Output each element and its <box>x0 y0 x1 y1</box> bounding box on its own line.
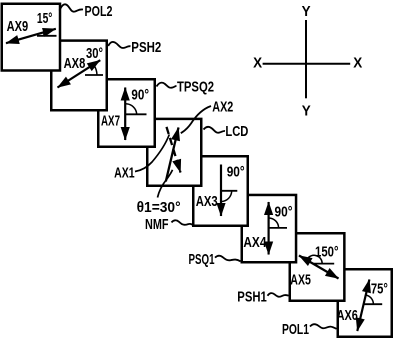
arrow AX8 30deg <box>58 60 101 87</box>
svg-text:75°: 75° <box>371 281 388 298</box>
X axis line <box>263 63 351 65</box>
svg-text:AX2: AX2 <box>212 98 233 115</box>
square POL2 (S1) <box>2 4 60 71</box>
svg-text:90°: 90° <box>275 203 293 220</box>
solid director AX1 <box>166 128 179 182</box>
leader TPSQ2 <box>157 83 177 88</box>
square PSH1 (S7) <box>290 233 345 301</box>
svg-text:POL2: POL2 <box>85 3 113 20</box>
svg-text:AX5: AX5 <box>290 272 311 289</box>
square PSH2 (S2) <box>51 41 107 111</box>
arrow AX3 90deg down <box>220 165 222 217</box>
svg-text:PSH1: PSH1 <box>237 288 266 305</box>
svg-text:θ1=30°: θ1=30° <box>137 199 181 216</box>
arc 90deg <box>221 191 232 202</box>
svg-text:90°: 90° <box>227 163 245 180</box>
svg-text:LCD: LCD <box>225 123 248 140</box>
X-Y axis cross <box>253 3 362 119</box>
svg-text:X: X <box>253 55 262 72</box>
svg-text:PSQ1: PSQ1 <box>189 251 215 268</box>
svg-text:POL1: POL1 <box>282 321 309 338</box>
svg-text:AX3: AX3 <box>196 193 218 210</box>
svg-text:AX9: AX9 <box>7 18 29 35</box>
svg-text:PSH2: PSH2 <box>131 39 161 56</box>
svg-text:AX4: AX4 <box>243 234 267 251</box>
ref line 90deg <box>221 190 237 192</box>
svg-text:Y: Y <box>302 102 311 119</box>
dashed director AX2 <box>167 127 181 173</box>
square PSQ1 (S6) <box>242 195 296 262</box>
leader PSQ1 <box>215 256 241 262</box>
svg-text:AX1: AX1 <box>114 165 135 182</box>
svg-text:NMF: NMF <box>145 216 169 233</box>
arc 90deg <box>269 218 279 228</box>
svg-text:AX6: AX6 <box>337 307 358 324</box>
leader PSH2 <box>108 42 130 48</box>
ref line 30deg <box>85 74 103 76</box>
svg-text:30°: 30° <box>86 45 103 62</box>
ref line 15deg <box>37 35 57 37</box>
ref line 150deg <box>313 263 334 265</box>
leader AX1 <box>135 135 169 172</box>
square TPSQ2 (S3) <box>98 79 155 147</box>
square LCD (S4) <box>147 119 201 186</box>
arrow AX9 15deg <box>6 29 56 43</box>
arc 75deg <box>366 295 373 304</box>
svg-text:150°: 150° <box>315 243 339 260</box>
svg-text:AX8: AX8 <box>64 55 86 72</box>
leader PSH1 <box>268 293 289 297</box>
square POL1 (S8) <box>337 269 392 337</box>
arc 15deg <box>43 32 45 35</box>
arrow AX6 75deg <box>357 280 369 332</box>
svg-text:90°: 90° <box>131 86 149 103</box>
arc 30deg <box>94 65 97 75</box>
svg-text:X: X <box>353 55 362 72</box>
leader POL2 <box>60 4 84 11</box>
square NMF (S5) <box>193 156 248 226</box>
svg-text:AX7: AX7 <box>101 113 120 130</box>
arc 150deg <box>307 255 322 263</box>
Y axis line <box>305 20 307 98</box>
leader AX2 <box>181 106 211 133</box>
svg-text:Y: Y <box>302 3 311 20</box>
leader theta1 <box>158 170 173 198</box>
ref line 90deg <box>125 113 146 115</box>
arrow AX5 150deg <box>299 256 339 279</box>
svg-text:15°: 15° <box>37 10 53 27</box>
leader NMF <box>172 220 193 225</box>
arc 90deg <box>126 104 137 115</box>
arrow AX7 90deg <box>124 88 126 141</box>
ref line 75deg <box>364 303 382 305</box>
leader LCD <box>204 127 226 133</box>
svg-text:TPSQ2: TPSQ2 <box>177 78 214 95</box>
ref line 90deg <box>269 227 287 229</box>
leader POL1 <box>310 324 337 329</box>
arrow AX4 90deg <box>268 202 270 255</box>
